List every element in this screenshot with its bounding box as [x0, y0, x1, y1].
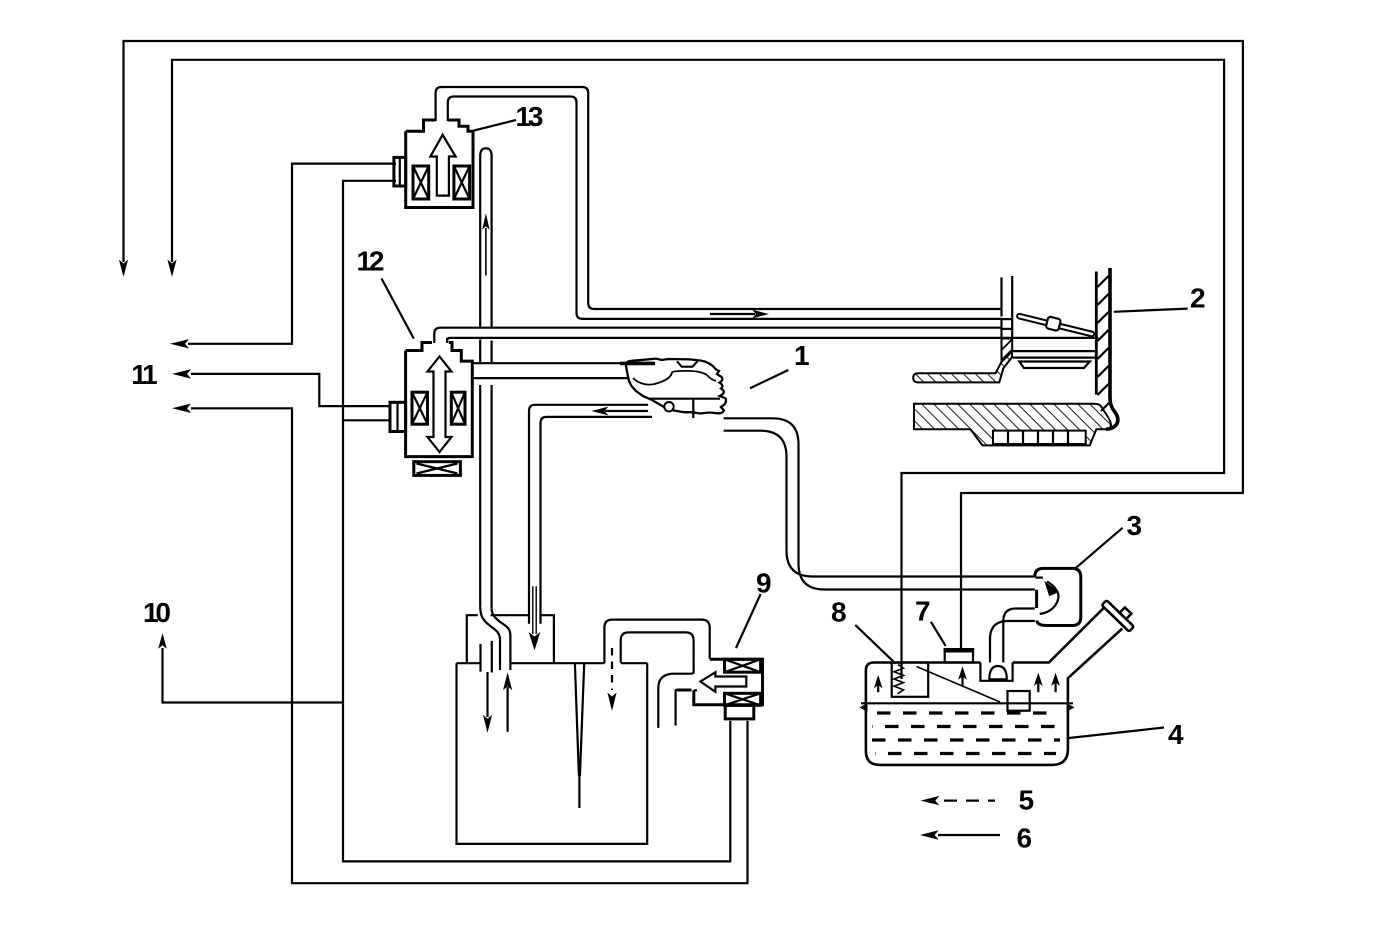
purge service valve 1 body	[620, 359, 726, 418]
intake runner upper wall (hatched bar)	[913, 352, 1012, 383]
wire from solenoid 13 pin1 to PCM arrow 11a	[170, 164, 396, 349]
solenoid 12 coil left	[412, 392, 428, 424]
label 6 with arrow	[920, 823, 1032, 854]
single line pipes from solenoid 12 to valve 1	[471, 362, 625, 364]
fuel vapor vent valve 8 box	[892, 663, 929, 697]
throttle plate seat tray	[1019, 362, 1089, 369]
throttle bore floor	[1012, 351, 1097, 358]
left flow arrow in that pipe	[591, 407, 648, 416]
small hatched wall between ports	[1002, 339, 1013, 362]
canister internal down arrow left	[483, 672, 492, 733]
pipe from fitting 3 down to fuel pump	[990, 609, 1035, 663]
pipe from valve 1 down-right to fitting 3	[724, 418, 1035, 589]
solenoid 13 coil left	[413, 166, 429, 199]
tank vapor up arrow b	[958, 666, 967, 686]
throttle shaft square port	[1002, 319, 1013, 329]
pipe from solenoid 12 top to canister purge line	[434, 328, 1098, 343]
leader line 2	[1114, 309, 1188, 312]
tank vapor up arrow a	[874, 675, 883, 692]
solenoid 12 bottom filter box with bowtie	[414, 462, 461, 476]
down arrow into canister inlet box	[529, 586, 541, 650]
canister inlet box on top	[467, 615, 554, 663]
vent solenoid 9 internal left arrow	[700, 672, 746, 692]
fuel pump flange 7	[944, 649, 975, 662]
throttle body right wall (hatched)	[1096, 268, 1118, 429]
leader line 13	[474, 120, 516, 131]
leader line 12	[382, 279, 414, 339]
leader line 7	[931, 622, 946, 646]
fresh air vent tube (open ended)	[658, 671, 693, 728]
fitting 3 body	[1035, 568, 1081, 625]
solenoid 13 coil right	[454, 166, 470, 199]
vent solenoid 9 coil top	[725, 659, 761, 672]
canister internal dashed down arrow	[607, 648, 616, 711]
solenoid 12 internal double arrow	[428, 357, 452, 453]
fuel dashes in tank	[872, 713, 1060, 754]
vent valve 8 spring zigzag	[894, 665, 904, 694]
fuel pump dome	[980, 663, 1012, 681]
canister inlet stub lines	[481, 641, 492, 673]
wire node 10 with up arrow	[158, 633, 343, 702]
fuel sender float	[1008, 691, 1030, 711]
svg-text:10: 10	[143, 597, 170, 628]
throttle stop grid block	[993, 431, 1086, 444]
wire bus from solenoid 13 pin2 down to vent solenoid 9	[343, 181, 730, 862]
vertical canister pipe with capped top (breaks at crossings)	[480, 148, 491, 609]
canister internal up arrow	[503, 672, 512, 732]
vent solenoid 9 coil bottom	[725, 693, 761, 705]
leader line 4	[1069, 728, 1164, 739]
wire outer loop from top-left arrow to tank (line A)	[119, 41, 1243, 649]
fuel level line with end ticks	[860, 703, 1075, 712]
label 5 with dashed arrow	[921, 785, 1034, 816]
tank vapor up arrow c	[1034, 673, 1043, 693]
up flow arrow inside canister pipe	[482, 213, 489, 275]
solenoid 13 internal up arrow	[430, 135, 455, 196]
pipe from solenoid 13 to throttle body upper port	[436, 87, 1002, 319]
solenoid valve 12 body	[404, 343, 474, 457]
S-bend of canister pipe into canister	[480, 607, 510, 670]
wire from vent solenoid 9 to PCM arrow 11c	[172, 404, 748, 884]
solenoid 13 electrical connector	[394, 157, 406, 186]
elbow pipe from canister to vent solenoid 9	[604, 620, 709, 674]
svg-text:11: 11	[131, 359, 157, 390]
vent solenoid 9 electrical connector	[725, 705, 754, 719]
flow arrow in purge pipe	[710, 310, 769, 319]
intake manifold lower hatched slab	[914, 404, 1111, 446]
leader line 1	[750, 370, 788, 388]
svg-text:12: 12	[357, 245, 384, 276]
fuel filler cap	[1102, 595, 1139, 632]
wire inner loop from top-left arrow to tank (line B)	[167, 60, 1224, 679]
throttle body walls below shaft	[1002, 329, 1013, 337]
leader line 9	[736, 594, 761, 648]
throttle body 2 : idle air vertical passage walls	[1002, 276, 1013, 319]
solenoid valve 13 body	[404, 120, 474, 208]
fitting 3 inner cup and hook arrow	[1035, 578, 1059, 614]
throttle plate lever	[1016, 309, 1096, 340]
solenoid 12 coil right	[451, 392, 465, 424]
fuel tank 4 outline	[866, 605, 1122, 765]
solenoid 12 electrical connector	[390, 402, 406, 431]
canister internal spike baffle	[575, 664, 584, 808]
leader line 8	[855, 625, 895, 664]
vent solenoid 9 body	[677, 659, 763, 705]
leader line 3	[1074, 528, 1123, 570]
tank vapor up arrow d	[1051, 673, 1060, 693]
wire from solenoid 12 pin2 to bus	[343, 419, 390, 421]
wire from solenoid 12 pin1 to PCM arrow 11b	[172, 369, 390, 406]
svg-text:13: 13	[516, 101, 543, 132]
EVAP canister body	[457, 663, 648, 844]
fuel sender float arm	[917, 667, 1001, 703]
pipe from valve 1 to canister (with left flow arrow)	[529, 405, 652, 624]
